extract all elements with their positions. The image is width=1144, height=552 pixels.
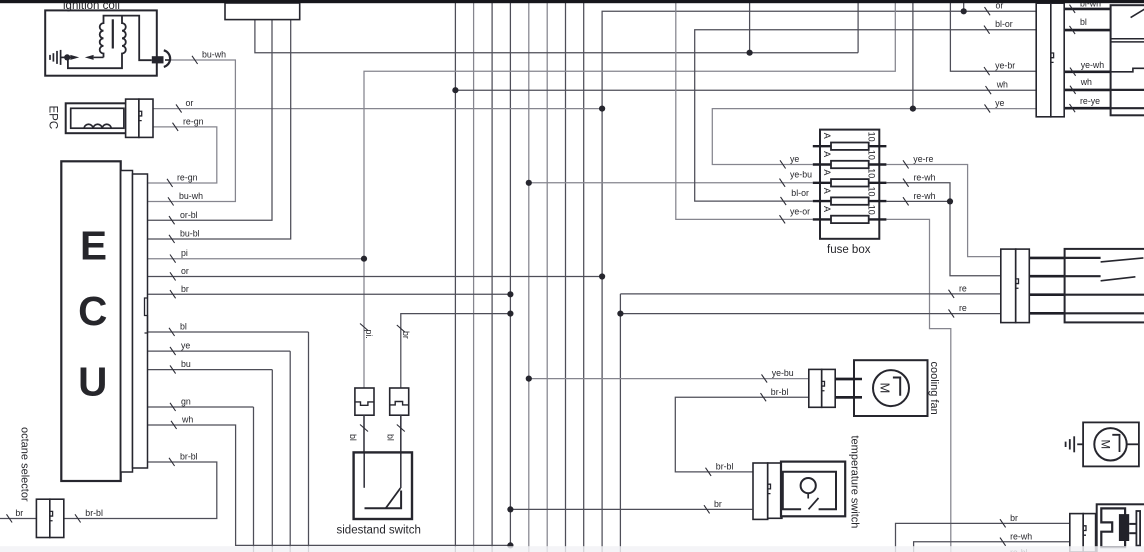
- svg-text:re: re: [959, 283, 967, 293]
- svg-text:U: U: [78, 359, 107, 405]
- svg-text:bl: bl: [1080, 17, 1087, 27]
- node re-wh: [947, 198, 953, 204]
- svg-text:ye-bu: ye-bu: [772, 368, 794, 378]
- wire gn vertical x253: [253, 407, 255, 552]
- svg-text:C: C: [78, 288, 107, 334]
- wire ye vertical x290: [289, 351, 291, 552]
- motor M2: [1094, 428, 1126, 460]
- label re upper: [949, 290, 955, 298]
- label br-bl octane: [75, 514, 81, 522]
- node br sidestand: [507, 311, 513, 317]
- ground (ignition coil): [50, 50, 65, 65]
- label ye fuse: [780, 160, 786, 168]
- wire bundle vertical net ye-bu x529: [528, 3, 530, 552]
- svg-text:ye: ye: [995, 98, 1004, 108]
- wire net ye-bu to fan connector: [529, 378, 809, 380]
- svg-text:re-wh: re-wh: [914, 191, 936, 201]
- inner lines top right box: [1111, 89, 1144, 91]
- svg-text:re-wh: re-wh: [914, 172, 936, 182]
- label br bottom right: [1000, 519, 1006, 527]
- connector block top (cropped): [225, 3, 300, 20]
- svg-text:A: A: [822, 188, 832, 194]
- fuse 4: [813, 200, 887, 202]
- wire net re upper to mid connector: [620, 293, 1000, 295]
- label ye-br: [984, 67, 990, 75]
- wire bundle vertical x584: [583, 3, 585, 552]
- svg-text:fuse box: fuse box: [827, 244, 871, 256]
- wire ECU pi to junction x364: [148, 258, 364, 260]
- node pi: [361, 256, 367, 262]
- svg-text:octane selector: octane selector: [19, 427, 31, 502]
- svg-text:10: 10: [866, 150, 876, 160]
- wire bl vertical x308: [308, 332, 310, 552]
- node wh/bundle: [452, 87, 458, 93]
- label bl sidestand left: [360, 425, 368, 432]
- wire net br to temperature switch: [510, 508, 752, 510]
- node br temp switch: [507, 506, 513, 512]
- wire net pi: bar riser x895, run y71, down x364 to sidestand: [364, 3, 895, 388]
- svg-text:bu-bl: bu-bl: [180, 229, 200, 239]
- label ye-bu fuse: [780, 179, 786, 187]
- svg-text:or: or: [181, 266, 189, 276]
- svg-text:re-ye: re-ye: [1080, 96, 1100, 106]
- label bl: [169, 328, 175, 336]
- svg-text:bl: bl: [386, 434, 396, 441]
- wire sidestand br up to junction x510: [401, 314, 511, 388]
- node re lower: [617, 311, 623, 317]
- svg-text:A: A: [822, 133, 832, 139]
- svg-text:ye: ye: [181, 341, 190, 351]
- fuse 2: [813, 163, 887, 165]
- switch box mid right (cropped): [1065, 249, 1144, 323]
- wire net ye-or fuse5 left up to bar: [676, 3, 813, 219]
- wire bundle vertical net br x510: [509, 3, 511, 545]
- wire riser to bar x749 (junction): [749, 3, 751, 53]
- fuse 5: [813, 218, 887, 220]
- fan pin stubs: [835, 378, 862, 381]
- svg-text:ye-re: ye-re: [913, 154, 933, 164]
- relay right bar: [1136, 511, 1140, 546]
- svg-text:or-bl: or-bl: [180, 210, 198, 220]
- inner bar top right box: [1111, 38, 1144, 40]
- node ye riser: [910, 106, 916, 112]
- label bu-wh: [168, 197, 174, 205]
- ignition coil box: [45, 10, 157, 75]
- label re-ye: [1070, 104, 1076, 112]
- switch blade mid 2: [1065, 275, 1101, 277]
- node br ECU: [507, 291, 513, 297]
- wire net ye-br riser x950 to connector: [950, 3, 1036, 71]
- node: coil primary junction: [64, 54, 70, 60]
- wire bu vertical x272: [271, 370, 273, 552]
- pin stub bl-wh: [1064, 8, 1110, 11]
- svg-text:ye-bu: ye-bu: [790, 169, 812, 179]
- top crop bar: [0, 0, 1144, 3]
- svg-text:or: or: [186, 98, 194, 108]
- svg-text:br-bl: br-bl: [771, 387, 789, 397]
- label re-wh bottom right: [1000, 538, 1006, 546]
- relay black core: [1119, 514, 1129, 541]
- svg-text:10: 10: [866, 187, 876, 197]
- svg-text:br-bl: br-bl: [85, 508, 103, 518]
- svg-text:10: 10: [866, 132, 876, 142]
- svg-text:bl-or: bl-or: [995, 19, 1013, 29]
- wire net re lower to mid connector: [620, 313, 1000, 315]
- ECU connector bar 2: [133, 174, 148, 468]
- wire net or: vertical x602 and top run to connector: [602, 11, 1036, 552]
- motor box right: [1083, 422, 1139, 466]
- label bu-bl: [169, 235, 175, 243]
- pin stub mid connector 2: [1029, 275, 1064, 278]
- connector bottom right: [1070, 514, 1083, 552]
- svg-text:re-wh: re-wh: [1010, 531, 1032, 541]
- svg-text:wh: wh: [996, 80, 1008, 90]
- EPC solenoid winding: [84, 124, 111, 128]
- page band bottom: [0, 546, 1144, 552]
- pin stub mid connector 1: [1029, 257, 1064, 260]
- pin stub mid connector 4: [1029, 312, 1064, 315]
- svg-text:10: 10: [866, 205, 876, 215]
- wire bundle vertical x492: [491, 3, 493, 552]
- wire net bl-or fuse4 left up and over to connector: [695, 30, 1036, 201]
- wire net ye fuse2 left up and over to connector: [712, 109, 1036, 165]
- svg-text:A: A: [822, 169, 832, 175]
- wire net re-gn EPC to ECU: [148, 127, 217, 183]
- connector temperature switch: [753, 463, 768, 519]
- label bl-or fuse: [781, 197, 787, 205]
- node or/EPC: [599, 106, 605, 112]
- svg-text:bl: bl: [348, 434, 358, 441]
- wire net ye-re fuse2 right to mid connector: [886, 165, 1000, 257]
- wire riser to bar x913 (net ye): [912, 3, 914, 109]
- svg-text:re-gn: re-gn: [177, 173, 198, 183]
- svg-text:sidestand switch: sidestand switch: [337, 525, 421, 537]
- svg-text:br: br: [15, 508, 23, 518]
- wire net re-wh bottom right from crop to connector: [914, 542, 1070, 552]
- sidestand switch contact: [365, 491, 402, 509]
- relay inner housing: [1101, 508, 1125, 547]
- label br: [170, 290, 176, 298]
- pin stub mid connector 3: [1029, 293, 1064, 296]
- label pi: [170, 255, 176, 263]
- svg-text:E: E: [80, 223, 107, 269]
- label br-bl temp: [706, 468, 712, 476]
- thermal bulb: [801, 478, 816, 493]
- switch blade top right: [1131, 8, 1144, 17]
- temperature switch box: [781, 462, 845, 517]
- wire ECU br to junction x510: [148, 293, 510, 295]
- label re-gn EPC: [173, 123, 179, 131]
- inner lines mid right box: [1065, 294, 1144, 296]
- label wh far right: [1070, 86, 1076, 94]
- ECU box: [61, 161, 120, 481]
- svg-text:wh: wh: [181, 415, 193, 425]
- label or EPC: [176, 104, 182, 112]
- wire net ye-bu fuse3 left to bundle junction: [529, 182, 813, 184]
- switch box top right (cropped): [1111, 5, 1144, 115]
- label bl: [1070, 26, 1076, 34]
- pin stub bl: [1064, 29, 1110, 32]
- label wh: [171, 421, 177, 429]
- svg-text:bu: bu: [181, 359, 191, 369]
- label bl-wh: [1070, 5, 1076, 13]
- wire net bu-wh ignition coil to ECU: [148, 60, 235, 202]
- label br-bl: [169, 458, 175, 466]
- svg-text:temperature switch: temperature switch: [849, 436, 861, 529]
- pin stub wh right: [1064, 89, 1110, 92]
- wire ECU bu: [148, 369, 272, 371]
- wire br into octane selector: [0, 518, 36, 520]
- wire or stub to top bar: [963, 3, 965, 11]
- wire net br-bl ECU to octane selector: [64, 462, 217, 519]
- svg-text:10: 10: [866, 168, 876, 178]
- label ye-bu fan: [762, 374, 768, 382]
- svg-text:br: br: [181, 284, 189, 294]
- EPC box: [66, 103, 128, 133]
- label or right: [985, 7, 991, 15]
- transformer core: [112, 19, 114, 48]
- svg-text:bu-wh: bu-wh: [179, 191, 203, 201]
- cooling fan motor M1: [873, 370, 909, 406]
- connector EPC: [126, 99, 139, 137]
- label or: [170, 272, 176, 280]
- pin stub re-ye: [1064, 107, 1110, 110]
- wire ECU gn: [148, 406, 254, 408]
- label pi sidestand: [360, 324, 368, 331]
- temperature switch inner housing: [783, 472, 836, 510]
- svg-text:ye-br: ye-br: [995, 61, 1015, 71]
- label bl sidestand right: [397, 425, 405, 432]
- ECU connector bar 1: [121, 171, 133, 473]
- svg-text:pi.: pi.: [364, 330, 374, 339]
- svg-text:ye: ye: [790, 154, 799, 164]
- label br temp: [704, 505, 710, 513]
- wire ECU or to junction x602: [148, 276, 602, 278]
- wire ECU bl: [148, 331, 309, 333]
- cooling fan box: [854, 360, 928, 416]
- svg-text:A: A: [822, 151, 832, 157]
- svg-text:br: br: [401, 331, 411, 339]
- wire net br-bl fan connector to temperature switch: [675, 397, 809, 472]
- wire net br bottom right from crop to connector: [896, 523, 1070, 552]
- wire bundle vertical net wh x455: [454, 3, 456, 552]
- connector octane selector: [36, 499, 49, 537]
- wire net wh ECU down x235 and bottom run y545: [148, 425, 510, 545]
- svg-text:cooling fan: cooling fan: [928, 362, 940, 415]
- svg-text:br-bl: br-bl: [180, 452, 198, 462]
- wire bundle vertical x547: [546, 3, 548, 552]
- wire bundle vertical x565: [565, 3, 567, 552]
- pin stub fan 2: [835, 396, 857, 399]
- svg-text:bu-wh: bu-wh: [202, 50, 226, 60]
- connector sidestand right: [390, 388, 409, 415]
- label re-wh lower: [903, 197, 909, 205]
- label re-wh upper: [903, 179, 909, 187]
- svg-text:pi: pi: [181, 248, 188, 258]
- label ye-or fuse: [780, 215, 786, 223]
- fuse 3: [813, 182, 887, 184]
- wire bundle vertical x474: [473, 3, 475, 552]
- wire from top box down at x255 then right at y52.7: [255, 20, 858, 53]
- svg-text:ye-wh: ye-wh: [1081, 60, 1105, 70]
- svg-text:wh: wh: [1080, 77, 1092, 87]
- label br octane: [7, 514, 13, 522]
- contact step ye-wh: [1111, 68, 1144, 72]
- node or ECU: [599, 273, 605, 279]
- node ye-bu fan: [526, 376, 532, 382]
- wire net re vertical x620: [619, 294, 621, 552]
- label ye-wh: [1070, 68, 1076, 76]
- svg-text:EPC: EPC: [47, 106, 59, 130]
- label bl-or right: [984, 26, 990, 34]
- connector mid right: [1001, 249, 1016, 323]
- svg-text:bl-or: bl-or: [791, 188, 809, 198]
- switch blade mid 1: [1065, 257, 1101, 259]
- svg-text:M: M: [878, 383, 893, 394]
- fuse box outline: [820, 130, 879, 239]
- label ye right: [985, 104, 991, 112]
- label bu-wh coil: [192, 56, 198, 64]
- label br-bl fan: [761, 393, 767, 401]
- wire riser to bar x858: [857, 3, 859, 53]
- label re lower: [949, 309, 955, 317]
- node or bar stub: [961, 8, 967, 14]
- label gn: [170, 403, 176, 411]
- svg-text:br: br: [1010, 513, 1018, 523]
- svg-text:gn: gn: [181, 397, 191, 407]
- svg-text:br-bl: br-bl: [716, 461, 734, 471]
- svg-text:bl: bl: [180, 322, 187, 332]
- spark gap arrows: [70, 55, 93, 60]
- svg-text:M: M: [1099, 440, 1111, 450]
- svg-text:br: br: [714, 499, 722, 509]
- fuse 1: [813, 145, 887, 147]
- wire fuse5 right down to bottom edge: [886, 219, 950, 552]
- wire ECU ye: [148, 350, 290, 352]
- svg-text:ye-or: ye-or: [790, 206, 810, 216]
- wire EPC or to junction x602: [153, 108, 602, 110]
- label wh right: [986, 86, 992, 94]
- node wh bottom: [507, 542, 513, 548]
- sidestand switch box: [354, 452, 412, 519]
- pin stub ye-wh: [1064, 71, 1110, 74]
- relay box bottom right (cropped): [1097, 504, 1144, 552]
- connector cooling fan: [809, 369, 822, 407]
- transformer secondary winding: [68, 16, 126, 69]
- HT output terminal: [152, 56, 164, 63]
- wire net re-wh fuse4 right to mid connector: [886, 201, 1000, 275]
- wire net re-wh fuse3 right down to junction: [886, 183, 950, 202]
- pin stub fan 1: [835, 378, 857, 381]
- sidestand switch lever: [386, 488, 401, 509]
- wire net bu-bl ECU to top box: [148, 20, 291, 239]
- ground (motor): [1066, 436, 1084, 452]
- svg-text:re: re: [959, 303, 967, 313]
- temperature switch blade: [809, 498, 819, 509]
- label ye-re: [903, 160, 909, 168]
- label ye: [170, 347, 176, 355]
- wire net or-bl ECU to top box: [148, 20, 272, 221]
- svg-text:A: A: [822, 206, 832, 212]
- label or-bl: [169, 216, 175, 224]
- sidestand wires into box: [364, 415, 401, 488]
- label br sidestand: [397, 325, 405, 332]
- label re-gn: [167, 179, 173, 187]
- wire net wh y90 to connector: [455, 89, 1036, 91]
- transformer primary winding: [100, 16, 152, 61]
- node y52 riser: [747, 50, 753, 56]
- node ye-bu: [526, 180, 532, 186]
- label bu: [170, 365, 176, 373]
- connector top right: [1036, 3, 1051, 117]
- svg-text:re-gn: re-gn: [183, 116, 204, 126]
- connector sidestand left: [355, 388, 374, 415]
